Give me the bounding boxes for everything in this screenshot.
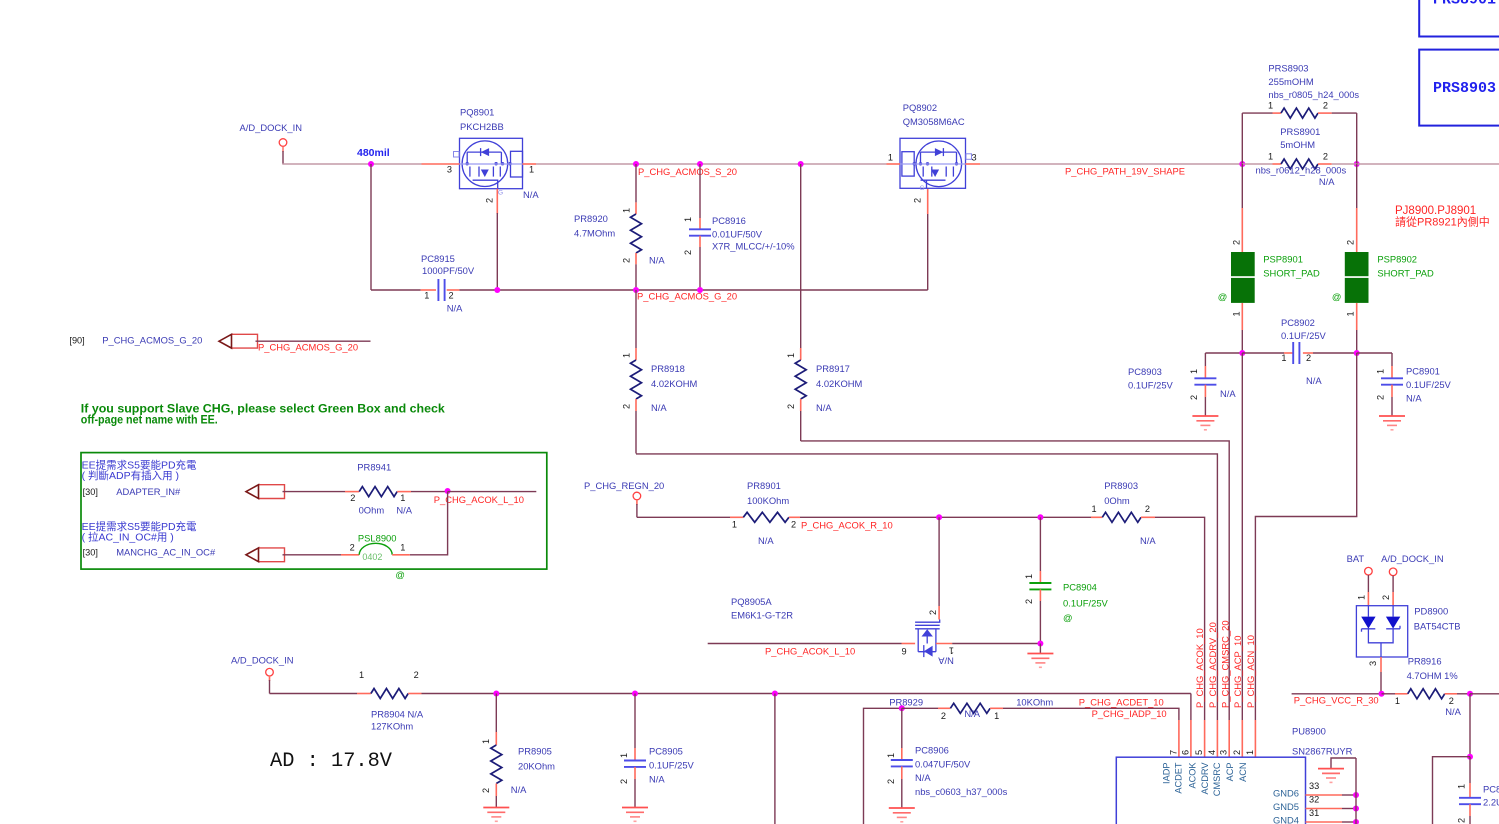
- wire P_CHG_ACMOS_G_20 horizontal: [459, 289, 927, 291]
- svg-text:PRS8903: PRS8903: [1268, 63, 1308, 74]
- svg-text:2: 2: [350, 543, 355, 553]
- svg-text:SN2867RUYR: SN2867RUYR: [1292, 746, 1353, 757]
- svg-text:PJ8900.PJ8901: PJ8900.PJ8901: [1395, 205, 1476, 217]
- svg-text:BAT54CTB: BAT54CTB: [1414, 621, 1461, 632]
- svg-text:2: 2: [414, 670, 419, 680]
- svg-text:1000PF/50V: 1000PF/50V: [422, 265, 475, 276]
- wire PQ8901 gate down to ACMOS_G line: [496, 189, 498, 214]
- svg-text:N/A: N/A: [649, 774, 665, 785]
- svg-text:P_CHG_PATH_19V_SHAPE: P_CHG_PATH_19V_SHAPE: [1065, 166, 1185, 177]
- junction PR8905: [493, 691, 499, 697]
- svg-text:3: 3: [972, 153, 977, 163]
- svg-text:2: 2: [622, 404, 632, 409]
- svg-text:2: 2: [1376, 395, 1386, 400]
- svg-text:PC8904: PC8904: [1063, 582, 1097, 593]
- wire from off-page arrow: [256, 340, 371, 342]
- svg-text:PSP8902: PSP8902: [1377, 253, 1417, 264]
- svg-text:P_CHG_IADP_10: P_CHG_IADP_10: [1092, 708, 1167, 719]
- svg-text:PR8918: PR8918: [651, 363, 685, 374]
- svg-text:3: 3: [1219, 750, 1229, 755]
- off-page connector arrow ADAPTER_IN#: [259, 485, 285, 499]
- wire PR8917 bottom to ACP bus: [801, 441, 1229, 720]
- junction branch x=775: [772, 691, 778, 697]
- IC PU8900 box: [1116, 757, 1305, 824]
- junction P_CHG_ACOK_L_10: [445, 488, 451, 494]
- junction PC8906 top: [899, 705, 905, 711]
- svg-text:1: 1: [424, 291, 429, 301]
- svg-text:2: 2: [481, 788, 491, 793]
- svg-text:100KOhm: 100KOhm: [747, 495, 789, 506]
- svg-text:1: 1: [481, 739, 491, 744]
- svg-text:PRS8901: PRS8901: [1280, 126, 1320, 137]
- junction right of PR8916: [1467, 691, 1473, 697]
- svg-text:[30]: [30]: [83, 487, 98, 497]
- off-page connector arrow P_CHG_ACMOS_G_20: [232, 334, 258, 348]
- svg-text:1: 1: [732, 520, 737, 530]
- svg-text:N/A: N/A: [651, 402, 667, 413]
- ground below PC8904: [1039, 644, 1041, 654]
- svg-text:1: 1: [400, 543, 405, 553]
- svg-text:5mOHM: 5mOHM: [1280, 139, 1315, 150]
- wire branch x=775 down to edge: [774, 694, 776, 824]
- svg-text:1: 1: [1092, 504, 1097, 514]
- svg-text:32: 32: [1309, 795, 1319, 805]
- svg-text:GND4: GND4: [1273, 815, 1299, 824]
- svg-text:PRS8901: PRS8901: [1433, 0, 1496, 9]
- svg-text:1: 1: [1231, 311, 1241, 316]
- svg-text:nbs_c0603_h37_000s: nbs_c0603_h37_000s: [915, 786, 1008, 797]
- svg-text:N/A: N/A: [915, 772, 931, 783]
- transistor PQ8901 symbol: [460, 138, 523, 188]
- svg-text:2: 2: [791, 520, 796, 530]
- wire ACOK_L continues right: [448, 491, 537, 493]
- svg-text:MANCHG_AC_IN_OC#: MANCHG_AC_IN_OC#: [116, 547, 216, 558]
- svg-text:10KOhm: 10KOhm: [1016, 697, 1053, 708]
- svg-text:PSL8900: PSL8900: [358, 533, 397, 544]
- svg-text:4.7MOhm: 4.7MOhm: [574, 228, 615, 239]
- junction PC8916 on main line: [697, 161, 703, 167]
- svg-text:AD : 17.8V: AD : 17.8V: [270, 750, 393, 773]
- svg-text:31: 31: [1309, 808, 1319, 818]
- svg-text:0.1UF/25V: 0.1UF/25V: [1406, 379, 1452, 390]
- wire A/D_DOCK_IN stub: [282, 146, 284, 152]
- junction PC8904 bottom on ACOK_L: [1037, 641, 1043, 647]
- wire REGN down and right: [636, 500, 638, 505]
- svg-text:2: 2: [485, 198, 495, 203]
- block PRS8901 (off-sheet box, cut at top): [1419, 0, 1499, 37]
- svg-text:PC8905: PC8905: [649, 746, 683, 757]
- svg-text:2: 2: [1024, 599, 1034, 604]
- svg-text:N/A: N/A: [816, 402, 832, 413]
- wire PQ8905A drain from ACOK_R junction: [938, 517, 940, 606]
- svg-text:GND5: GND5: [1273, 801, 1299, 812]
- svg-text:PC8916: PC8916: [712, 215, 746, 226]
- svg-text:6: 6: [1180, 750, 1190, 755]
- svg-text:1: 1: [622, 353, 632, 358]
- capacitor PC8907 (bottom right, cut): [1469, 757, 1471, 783]
- svg-text:P_CHG_ACOK_L_10: P_CHG_ACOK_L_10: [765, 646, 855, 657]
- wire P_CHG_ACOK_L_10 row: [708, 643, 902, 645]
- wire lower main: [269, 676, 271, 681]
- svg-text:N/A: N/A: [758, 535, 774, 546]
- wire PQ8902 gate up from G line: [927, 214, 929, 290]
- svg-text:0.01UF/50V: 0.01UF/50V: [712, 229, 763, 240]
- svg-text:CMSRC: CMSRC: [1212, 762, 1222, 796]
- svg-text:1: 1: [888, 153, 893, 163]
- svg-text:PC8901: PC8901: [1406, 366, 1440, 377]
- wire ACP bus from PSP8901 column down to IC pin 2: [1241, 353, 1243, 720]
- svg-text:P_CHG_ACMOS_G_20: P_CHG_ACMOS_G_20: [102, 335, 202, 346]
- svg-text:1: 1: [359, 670, 364, 680]
- svg-text:1: 1: [1281, 353, 1286, 363]
- svg-text:[90]: [90]: [69, 336, 84, 346]
- svg-text:1: 1: [1376, 369, 1386, 374]
- pin-end marker D of PQ8902: [966, 154, 972, 160]
- green option box: [81, 453, 547, 569]
- svg-text:PC8906: PC8906: [915, 745, 949, 756]
- svg-text:PR8903: PR8903: [1104, 480, 1138, 491]
- svg-text:P_CHG_ACMOS_G_20: P_CHG_ACMOS_G_20: [637, 291, 737, 302]
- svg-text:0.1UF/25V: 0.1UF/25V: [649, 760, 695, 771]
- svg-text:7: 7: [1168, 750, 1178, 755]
- svg-text:2: 2: [619, 779, 629, 784]
- wire PR8918 bottom to ACDRV bus: [636, 454, 1217, 720]
- svg-text:N/A: N/A: [1406, 393, 1422, 404]
- wire PR8929 row with corner: [864, 708, 902, 824]
- ground below PR8905: [483, 807, 509, 809]
- junction PR8920 on main line: [633, 161, 639, 167]
- wire PRS8903 loop: [1241, 113, 1243, 164]
- svg-text:PR8917: PR8917: [816, 363, 850, 374]
- svg-text:nbs_r0805_h24_000s: nbs_r0805_h24_000s: [1268, 89, 1359, 100]
- wire MANCHG to PSL8900: [283, 554, 342, 556]
- svg-text:2: 2: [886, 779, 896, 784]
- wire VCC row to right edge: [1470, 693, 1499, 695]
- junction PR8918 on G line: [633, 287, 639, 293]
- svg-text:2: 2: [786, 404, 796, 409]
- svg-text:PR8901: PR8901: [747, 480, 781, 491]
- resistor PRS8901 body: [1242, 163, 1272, 165]
- svg-text:2: 2: [1306, 353, 1311, 363]
- junction at 1470,757: [1467, 754, 1473, 760]
- svg-text:2: 2: [622, 258, 632, 263]
- svg-text:PQ8905A: PQ8905A: [731, 596, 772, 607]
- wire down from 480mil junction to PC8915 row: [370, 164, 372, 290]
- svg-text:[30]: [30]: [83, 548, 98, 558]
- svg-text:SHORT_PAD: SHORT_PAD: [1263, 268, 1320, 279]
- junction PD8900 pin3 on VCC row: [1379, 691, 1385, 697]
- svg-text:N/A: N/A: [1445, 706, 1461, 717]
- svg-text:P_CHG_ACOK_R_10: P_CHG_ACOK_R_10: [801, 520, 893, 531]
- svg-text:0.1UF/25V: 0.1UF/25V: [1281, 330, 1327, 341]
- junction right PRS column: [1354, 161, 1360, 167]
- svg-text:127KOhm: 127KOhm: [371, 720, 413, 731]
- pin-end marker D of PQ8901: [454, 152, 460, 158]
- svg-text:P_CHG_ACN_10: P_CHG_ACN_10: [1245, 635, 1256, 708]
- svg-text:1: 1: [400, 493, 405, 503]
- wire PC8902 row: [1205, 352, 1242, 354]
- svg-text:1: 1: [994, 711, 999, 721]
- pad PSP8901: [1241, 164, 1243, 208]
- svg-text:2: 2: [350, 493, 355, 503]
- svg-text:N/A: N/A: [938, 656, 954, 667]
- junction at 480mil: [368, 161, 374, 167]
- wire ACOK_R row: [800, 516, 1091, 518]
- svg-text:PC8902: PC8902: [1281, 317, 1315, 328]
- svg-text:ACDET: ACDET: [1174, 762, 1184, 794]
- svg-text:G: G: [498, 190, 503, 197]
- svg-text:N/A: N/A: [649, 255, 665, 266]
- svg-text:2: 2: [1346, 240, 1356, 245]
- svg-text:A/D_DOCK_IN: A/D_DOCK_IN: [231, 655, 294, 666]
- svg-text:0Ohm: 0Ohm: [359, 505, 385, 516]
- wire main 19V path (PQ8901 to PQ8902): [536, 163, 887, 165]
- junction PQ8905A drain: [936, 514, 942, 520]
- svg-text:1: 1: [1346, 311, 1356, 316]
- svg-text:1: 1: [619, 753, 629, 758]
- svg-text:1: 1: [529, 165, 534, 175]
- svg-text:P_CHG_ACDET_10: P_CHG_ACDET_10: [1079, 697, 1164, 708]
- svg-text:PC8: PC8: [1483, 783, 1499, 794]
- svg-text:PRS8903: PRS8903: [1433, 80, 1496, 97]
- svg-text:PQ8902: PQ8902: [903, 102, 937, 113]
- svg-text:1: 1: [1395, 696, 1400, 706]
- wire BAT pin 1 into PD8900: [1367, 575, 1369, 592]
- wire PR8929 to IADP bus -> IC pin 7: [1003, 708, 1179, 720]
- svg-text:PSP8901: PSP8901: [1263, 253, 1303, 264]
- svg-text:PR8920: PR8920: [574, 213, 608, 224]
- svg-text:P_CHG_ACP_10: P_CHG_ACP_10: [1232, 636, 1243, 708]
- svg-text:N/A: N/A: [1319, 176, 1335, 187]
- svg-text:4.02KOHM: 4.02KOHM: [651, 378, 698, 389]
- junction PC8905: [632, 691, 638, 697]
- svg-text:N/A: N/A: [396, 505, 412, 516]
- svg-text:2: 2: [1189, 395, 1199, 400]
- svg-text:2: 2: [941, 711, 946, 721]
- svg-text:N/A: N/A: [1140, 535, 1156, 546]
- svg-text:@: @: [395, 569, 405, 580]
- svg-text:N/A: N/A: [1306, 375, 1322, 386]
- junction PC8916 on G line: [697, 287, 703, 293]
- svg-text:off-page net name with EE.: off-page net name with EE.: [81, 415, 218, 427]
- svg-text:2: 2: [928, 610, 938, 615]
- svg-text:ACN: ACN: [1238, 763, 1248, 782]
- svg-text:GND6: GND6: [1273, 788, 1299, 799]
- junction PQ8901 gate on G line: [494, 287, 500, 293]
- ground below PC8906: [889, 807, 915, 809]
- pad PSP8902: [1356, 164, 1358, 208]
- svg-text:BAT: BAT: [1347, 553, 1365, 564]
- svg-text:1: 1: [1457, 784, 1467, 789]
- diode PD8900 symbol: [1356, 606, 1407, 657]
- svg-text:255mOHM: 255mOHM: [1268, 76, 1314, 87]
- wire bus pin stubs (salmon) into PU8900: [1178, 720, 1180, 757]
- off-page connector arrow MANCHG_AC_IN_OC#: [259, 548, 285, 562]
- svg-text:2: 2: [1381, 595, 1391, 600]
- junction PC8904 column: [1037, 514, 1043, 520]
- junction PR8917 branch on main line: [798, 161, 804, 167]
- wire corner to x=1432 down: [1433, 757, 1471, 824]
- svg-text:N/A: N/A: [447, 303, 463, 314]
- svg-text:1: 1: [786, 353, 796, 358]
- svg-text:1: 1: [622, 208, 632, 213]
- svg-text:2: 2: [1231, 240, 1241, 245]
- svg-text:33: 33: [1309, 781, 1319, 791]
- svg-text:2: 2: [1232, 750, 1242, 755]
- svg-text:IADP: IADP: [1162, 763, 1172, 784]
- svg-text:SHORT_PAD: SHORT_PAD: [1377, 268, 1434, 279]
- svg-text:N/A: N/A: [511, 784, 527, 795]
- svg-text:P_CHG_VCC_R_30: P_CHG_VCC_R_30: [1294, 694, 1379, 705]
- svg-text:480mil: 480mil: [357, 147, 390, 159]
- svg-text:N/A: N/A: [523, 189, 539, 200]
- svg-text:2: 2: [1449, 696, 1454, 706]
- svg-text:9: 9: [902, 646, 907, 656]
- wire GND bus right of PU8900: [1355, 758, 1357, 824]
- svg-text:G: G: [920, 185, 925, 192]
- wire P_CHG_VCC_R_30 row: [1292, 693, 1382, 695]
- svg-text:1: 1: [1245, 750, 1255, 755]
- svg-text:0.1UF/25V: 0.1UF/25V: [1063, 598, 1109, 609]
- svg-text:PC8915: PC8915: [421, 253, 455, 264]
- svg-text:2: 2: [913, 198, 923, 203]
- svg-text:1: 1: [886, 753, 896, 758]
- wire PR8903 to ACOK bus down to IC pin 5: [1155, 517, 1205, 720]
- svg-text:2: 2: [1145, 504, 1150, 514]
- svg-text:P_CHG_ACMOS_G_20: P_CHG_ACMOS_G_20: [258, 342, 358, 353]
- svg-text:PKCH2BB: PKCH2BB: [460, 121, 504, 132]
- svg-text:EM6K1-G-T2R: EM6K1-G-T2R: [731, 610, 793, 621]
- svg-text:PQ8901: PQ8901: [460, 107, 494, 118]
- svg-text:1: 1: [683, 217, 693, 222]
- svg-text:0.047UF/50V: 0.047UF/50V: [915, 759, 971, 770]
- svg-text:If you support Slave CHG, plea: If you support Slave CHG, please select …: [81, 403, 446, 415]
- svg-text:ACP: ACP: [1225, 763, 1235, 782]
- svg-text:PR8904 N/A: PR8904 N/A: [371, 709, 424, 720]
- svg-text:2: 2: [1323, 101, 1328, 111]
- svg-text:P_CHG_ACOK_10: P_CHG_ACOK_10: [1194, 628, 1205, 708]
- wire main 19V path segment (A/D_DOCK_IN to PQ8901 pin3): [282, 163, 421, 165]
- svg-text:1: 1: [1268, 152, 1273, 162]
- ground below PC8905: [622, 807, 648, 809]
- svg-text:請從PR8921內側中: 請從PR8921內側中: [1395, 215, 1490, 229]
- svg-text:2: 2: [683, 250, 693, 255]
- ground near PU8900: [1318, 768, 1344, 770]
- svg-text:N/A: N/A: [964, 708, 980, 719]
- svg-text:ACOK: ACOK: [1187, 762, 1197, 789]
- svg-text:0Ohm: 0Ohm: [1104, 495, 1130, 506]
- svg-text:@: @: [1218, 291, 1228, 302]
- svg-text:4.02KOHM: 4.02KOHM: [816, 378, 863, 389]
- svg-text:ADAPTER_IN#: ADAPTER_IN#: [116, 486, 181, 497]
- svg-text:3: 3: [1368, 661, 1378, 666]
- svg-text:PR8941: PR8941: [357, 462, 391, 473]
- svg-text:A/D_DOCK_IN: A/D_DOCK_IN: [1381, 553, 1444, 564]
- ground below PC8903: [1192, 415, 1218, 417]
- svg-text:P_CHG_REGN_20: P_CHG_REGN_20: [584, 480, 664, 491]
- svg-text:1: 1: [1268, 101, 1273, 111]
- wire ACOK_L down to PSL8900 row: [410, 492, 448, 555]
- svg-text:20KOhm: 20KOhm: [518, 760, 555, 771]
- wire A/D_DOCK_IN pin 2 into PD8900: [1392, 576, 1394, 592]
- svg-text:4.7OHM 1%: 4.7OHM 1%: [1407, 670, 1458, 681]
- svg-text:P_CHG_CMSRC_20: P_CHG_CMSRC_20: [1220, 620, 1231, 708]
- wire main 19V path to right edge: [1357, 163, 1499, 165]
- svg-text:P_CHG_ACDRV_20: P_CHG_ACDRV_20: [1207, 622, 1218, 708]
- block PRS8903 (off-sheet box): [1419, 50, 1499, 126]
- svg-text:@: @: [1063, 612, 1073, 623]
- svg-text:0402: 0402: [362, 552, 382, 562]
- svg-text:PR8916: PR8916: [1408, 656, 1442, 667]
- svg-text:PR8905: PR8905: [518, 746, 552, 757]
- resistor PRS8903 body: [1281, 108, 1318, 118]
- wire main 19V path (PQ8902 to PRS8901): [980, 163, 1242, 165]
- svg-text:P_CHG_ACMOS_S_20: P_CHG_ACMOS_S_20: [638, 166, 737, 177]
- svg-text:1: 1: [1189, 369, 1199, 374]
- svg-text:5: 5: [1194, 750, 1204, 755]
- wire ADAPTER_IN# to PR8941: [283, 491, 346, 493]
- svg-text:( 判斷ADP有插入用 ): ( 判斷ADP有插入用 ): [82, 469, 179, 482]
- svg-text:4: 4: [1207, 750, 1217, 755]
- svg-text:X7R_MLCC/+/-10%: X7R_MLCC/+/-10%: [712, 241, 795, 252]
- svg-text:nbs_r0612_h28_000s: nbs_r0612_h28_000s: [1256, 165, 1347, 176]
- svg-text:1: 1: [1357, 595, 1367, 600]
- wire lower main line: [422, 693, 1191, 695]
- svg-text:N/A: N/A: [1220, 388, 1236, 399]
- svg-text:0.1UF/25V: 0.1UF/25V: [1128, 380, 1174, 391]
- svg-text:( 拉AC_IN_OC#用 ): ( 拉AC_IN_OC#用 ): [82, 531, 174, 544]
- svg-text:PC8903: PC8903: [1128, 366, 1162, 377]
- svg-text:2.2U: 2.2U: [1483, 796, 1499, 807]
- svg-text:1: 1: [1024, 574, 1034, 579]
- wire down right column: [1469, 694, 1471, 757]
- svg-text:PU8900: PU8900: [1292, 726, 1326, 737]
- ground below PC8901: [1379, 415, 1405, 417]
- wire through PQ8901 (pin stubs): [422, 163, 460, 165]
- wire lower main to ACDET bus -> IC pin 6: [1190, 694, 1192, 721]
- svg-text:2: 2: [1323, 152, 1328, 162]
- svg-text:1: 1: [949, 646, 954, 656]
- svg-text:ACDRV: ACDRV: [1200, 762, 1210, 795]
- svg-text:@: @: [1332, 291, 1342, 302]
- transistor PQ8902 symbol: [900, 138, 966, 188]
- transistor PQ8905A symbol (NMOS rotated 180): [915, 620, 940, 658]
- junction left PRS column: [1239, 161, 1245, 167]
- svg-text:3: 3: [447, 165, 452, 175]
- svg-text:A/D_DOCK_IN: A/D_DOCK_IN: [240, 122, 303, 133]
- svg-text:QM3058M6AC: QM3058M6AC: [903, 116, 965, 127]
- capacitor PC8902 body: [1292, 342, 1294, 364]
- svg-text:PR8929: PR8929: [889, 697, 923, 708]
- wire through PQ8902 (pin stubs): [887, 163, 901, 165]
- wire from PSP8902 column down then left to ACN bus: [1255, 353, 1356, 720]
- svg-text:2: 2: [449, 291, 454, 301]
- svg-text:2: 2: [1457, 818, 1467, 823]
- svg-text:PD8900: PD8900: [1414, 605, 1448, 616]
